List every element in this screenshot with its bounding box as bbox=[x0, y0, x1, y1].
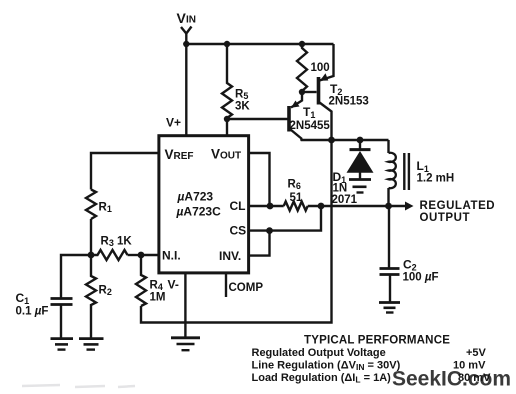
resistor R2 bbox=[86, 255, 96, 338]
label VIN bbox=[177, 10, 197, 26]
wire V+ from VIN to IC bbox=[185, 44, 187, 136]
svg-text:0.1 µF: 0.1 µF bbox=[16, 306, 49, 318]
resistor R5 bbox=[222, 44, 232, 118]
junction NI right / R4 top bbox=[138, 252, 145, 259]
wire CL pin bbox=[249, 205, 284, 207]
svg-text:R3 1K: R3 1K bbox=[101, 236, 133, 249]
wire R6 to output node bbox=[308, 205, 389, 207]
svg-text:1M: 1M bbox=[150, 292, 166, 304]
svg-text:1.2 mH: 1.2 mH bbox=[417, 173, 455, 185]
svg-text:Regulated Output Voltage: Regulated Output Voltage bbox=[252, 347, 386, 359]
svg-text:100: 100 bbox=[311, 62, 330, 74]
svg-text:100 µF: 100 µF bbox=[403, 272, 439, 284]
wire VOUT pin to CL line bbox=[249, 153, 270, 206]
wire output node down to C2 bbox=[388, 206, 390, 268]
junction switch node / T collectors bbox=[328, 137, 335, 144]
junction NI divider left bbox=[88, 252, 95, 259]
svg-text:Load Regulation (ΔIL = 1A): Load Regulation (ΔIL = 1A) bbox=[252, 372, 392, 385]
junction regulated output node bbox=[385, 203, 392, 210]
wire INV pin riser bbox=[249, 231, 270, 256]
svg-text:+5V: +5V bbox=[466, 347, 487, 359]
svg-text:2071: 2071 bbox=[332, 194, 358, 206]
svg-text:R2: R2 bbox=[99, 285, 112, 298]
inductor L1 core lines bbox=[404, 153, 409, 190]
svg-text:3K: 3K bbox=[235, 101, 250, 113]
svg-text:V: V bbox=[177, 10, 187, 26]
ground under R2 bbox=[79, 339, 104, 350]
IC op-amp regulator U1 uA723 box bbox=[159, 136, 249, 273]
junction R5 top bbox=[224, 41, 230, 47]
svg-text:C1: C1 bbox=[16, 291, 30, 306]
svg-text:R5: R5 bbox=[235, 89, 248, 102]
ground under C2 bbox=[379, 303, 400, 313]
svg-text:VREF: VREF bbox=[165, 147, 194, 162]
resistor R6 bbox=[284, 202, 308, 211]
ground V- bbox=[171, 338, 200, 350]
junction VIN bbox=[183, 41, 189, 47]
svg-text:µA723: µA723 bbox=[177, 190, 214, 204]
wire R5 to VC pin of IC bbox=[226, 119, 228, 136]
wire CS pin line bbox=[249, 206, 321, 231]
resistor R3 bbox=[91, 250, 141, 260]
wire COMP pin stub bbox=[225, 273, 227, 297]
svg-text:2N5153: 2N5153 bbox=[329, 96, 369, 108]
svg-text:CS: CS bbox=[230, 224, 247, 238]
wire V- pin to ground bbox=[184, 273, 186, 337]
svg-text:OUTPUT: OUTPUT bbox=[420, 212, 471, 224]
ground under D1 bbox=[349, 180, 371, 193]
wire R5 junction to T1 base bbox=[227, 118, 289, 120]
svg-text:INV.: INV. bbox=[219, 249, 241, 263]
svg-text:IN: IN bbox=[186, 15, 196, 26]
svg-text:R4: R4 bbox=[150, 280, 163, 293]
junction R6 right bbox=[318, 203, 325, 210]
resistor R1 bbox=[86, 190, 96, 220]
wire positive feedback (switch node down to R4 line) bbox=[141, 140, 332, 323]
svg-text:R1: R1 bbox=[99, 202, 112, 215]
svg-text:T1: T1 bbox=[303, 105, 315, 120]
svg-text:COMP: COMP bbox=[229, 282, 264, 294]
svg-text:1N: 1N bbox=[333, 183, 348, 195]
junction CS/INV riser bbox=[266, 227, 273, 234]
svg-text:N.I.: N.I. bbox=[162, 249, 181, 263]
svg-text:SeekIC.com: SeekIC.com bbox=[392, 368, 511, 391]
transistor T1 bbox=[289, 92, 302, 139]
svg-text:51: 51 bbox=[290, 192, 303, 204]
junction VOUT/CL bbox=[267, 203, 274, 210]
svg-text:VOUT: VOUT bbox=[211, 147, 241, 162]
svg-text:Line Regulation (ΔVIN = 30V): Line Regulation (ΔVIN = 30V) bbox=[252, 360, 401, 373]
wire VREF pin to R1 bbox=[91, 153, 159, 190]
svg-text:µA723C: µA723C bbox=[176, 205, 222, 219]
wire NI pin bbox=[141, 254, 159, 256]
wire T1 collector to switch rail bbox=[301, 139, 389, 140]
resistor 100 bbox=[297, 44, 307, 91]
ground under C1 bbox=[51, 339, 74, 350]
wire output arrow bbox=[389, 202, 414, 211]
junction D1 top bbox=[357, 137, 364, 144]
diode D1 bbox=[347, 140, 374, 179]
svg-text:C2: C2 bbox=[403, 258, 417, 273]
junction 100-ohm top bbox=[299, 41, 305, 47]
wire node to C1 bbox=[61, 255, 91, 298]
inductor L1 bbox=[389, 140, 396, 206]
junction 100-ohm bottom / T2 base node bbox=[299, 89, 305, 95]
svg-text:REGULATED: REGULATED bbox=[420, 200, 496, 212]
transistor T2 bbox=[319, 44, 334, 140]
svg-text:CL: CL bbox=[230, 199, 246, 213]
svg-text:R6: R6 bbox=[288, 179, 301, 192]
wire R1 to NI node bbox=[90, 219, 92, 255]
junction R5 bottom bbox=[224, 116, 230, 122]
wire VIN top rail bbox=[186, 43, 334, 45]
svg-text:V+: V+ bbox=[166, 116, 181, 130]
svg-text:2N5455: 2N5455 bbox=[290, 120, 331, 132]
svg-text:TYPICAL PERFORMANCE: TYPICAL PERFORMANCE bbox=[304, 335, 450, 347]
capacitor C1 bbox=[51, 299, 73, 339]
svg-text:V-: V- bbox=[168, 278, 179, 292]
node VIN terminal bbox=[181, 27, 192, 45]
capacitor C2 bbox=[380, 269, 400, 303]
resistor R4 bbox=[136, 255, 146, 306]
wire node to T2 base bbox=[302, 91, 317, 93]
